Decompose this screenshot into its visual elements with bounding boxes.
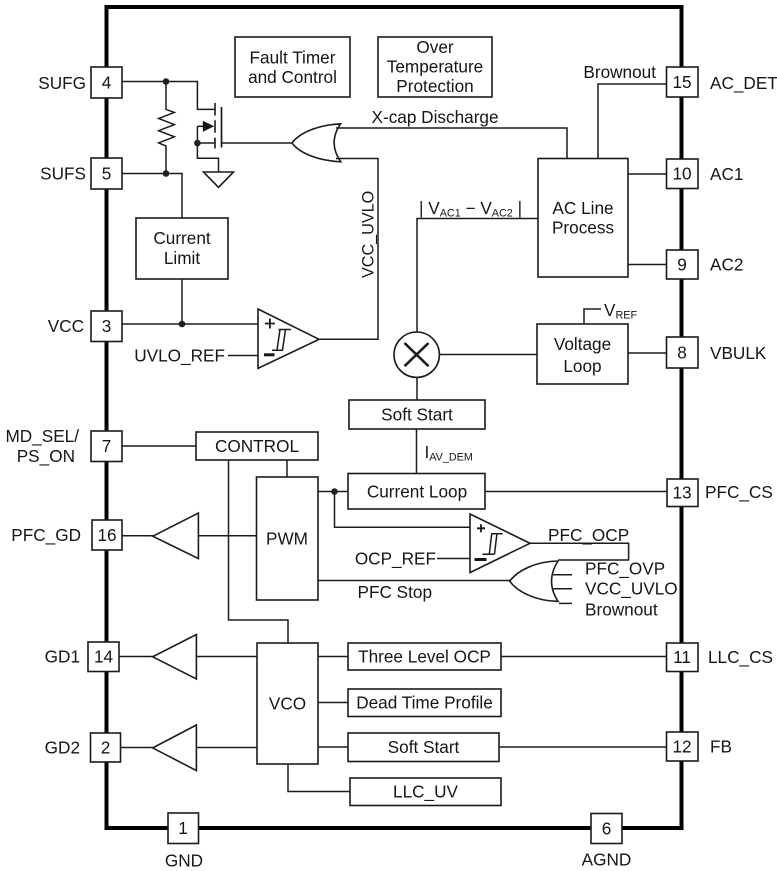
OR gate OR1 (X-cap discharge, left facing) xyxy=(292,124,341,162)
wire OR1 lower input from VCC_UVLO xyxy=(319,159,378,340)
node SUFS junction xyxy=(163,170,170,177)
svg-text:AC Line: AC Line xyxy=(552,198,613,218)
wire VREF tap xyxy=(584,309,601,324)
wire Brownout to AC_DET xyxy=(598,84,667,159)
transistor M1 channel xyxy=(214,103,216,149)
wire multiplier to Voltage Loop xyxy=(440,354,537,356)
svg-text:VCC: VCC xyxy=(48,316,84,336)
IC outer border xyxy=(107,7,682,828)
box Current Limit xyxy=(136,218,228,279)
svg-text:FB: FB xyxy=(710,737,732,757)
svg-text:AC2: AC2 xyxy=(710,255,743,275)
svg-text:Fault Timer: Fault Timer xyxy=(250,48,336,68)
svg-text:Brownout: Brownout xyxy=(583,62,656,82)
pin 13 PFC_CS xyxy=(667,479,698,507)
svg-text:UVLO_REF: UVLO_REF xyxy=(134,346,225,366)
svg-text:LLC_CS: LLC_CS xyxy=(708,647,773,667)
svg-text:AGND: AGND xyxy=(582,850,632,870)
wire X-cap Discharge xyxy=(336,128,567,159)
svg-text:and Control: and Control xyxy=(248,67,337,87)
svg-text:5: 5 xyxy=(102,164,112,184)
svg-text:2: 2 xyxy=(101,738,111,758)
wire |VAC1-VAC2| to multiplier xyxy=(417,219,538,333)
wire Current Loop to PFC_CS xyxy=(485,491,667,493)
wire OR2 input PFC_OVP xyxy=(553,574,572,576)
box Dead Time Profile xyxy=(348,689,501,717)
svg-text:SUFS: SUFS xyxy=(40,164,86,184)
wire CONTROL to PWM xyxy=(286,460,288,477)
node SUFG junction xyxy=(163,78,170,85)
pin 12 FB xyxy=(667,732,699,761)
svg-text:13: 13 xyxy=(672,483,691,503)
svg-text:VCC_UVLO: VCC_UVLO xyxy=(585,579,678,599)
wire OR2 input Brownout xyxy=(559,602,572,604)
wire AC Line Process to AC1 xyxy=(628,173,667,175)
comparator U1 (UVLO) xyxy=(258,309,319,368)
comparator U2 (PFC OCP) xyxy=(470,514,530,573)
wire MD_SEL to CONTROL xyxy=(122,445,196,447)
node Current Loop input junction xyxy=(331,488,338,495)
wire M1 gate to OR1 output xyxy=(222,142,293,144)
svg-text:Voltage: Voltage xyxy=(554,334,611,354)
svg-text:14: 14 xyxy=(94,647,114,667)
svg-text:GD1: GD1 xyxy=(45,647,80,667)
wire VCO to Dead Time Profile xyxy=(318,702,348,704)
box CONTROL xyxy=(196,432,318,460)
svg-text:SUFG: SUFG xyxy=(38,73,86,93)
svg-text:PFC_OVP: PFC_OVP xyxy=(585,559,665,579)
box Three Level OCP xyxy=(348,643,501,670)
svg-text:Protection: Protection xyxy=(396,76,473,96)
svg-text:CONTROL: CONTROL xyxy=(215,436,299,456)
wire junction to comparator U2 xyxy=(335,492,471,528)
transistor M1 source tap xyxy=(197,142,215,144)
wire PFC_OCP (U2 out to OR2) xyxy=(530,543,629,560)
box AC Line Process xyxy=(538,159,628,278)
buffer GD1 driver xyxy=(119,656,153,658)
pin 14 GD1 xyxy=(88,642,119,672)
resistor R (SUFG-SUFS) xyxy=(159,82,175,174)
svg-text:VBULK: VBULK xyxy=(710,343,767,363)
svg-text:12: 12 xyxy=(672,737,691,757)
multiplier X1 xyxy=(394,332,439,377)
transistor M1 bulk-source tie xyxy=(196,126,198,143)
wire Voltage Loop to VBULK xyxy=(628,352,667,354)
transistor M1 gate bar xyxy=(221,107,223,148)
svg-text:9: 9 xyxy=(677,255,687,275)
pin 7 MD_SEL/PS_ON xyxy=(91,431,122,462)
svg-text:VCO: VCO xyxy=(269,694,306,714)
pin 15 AC_DET xyxy=(667,67,699,97)
svg-text:AC_DET: AC_DET xyxy=(710,73,777,93)
wire VCO to Soft Start (LLC) xyxy=(318,746,348,748)
box Current Loop xyxy=(348,474,485,510)
wire OR2 input VCC_UVLO xyxy=(552,588,572,590)
svg-text:Loop: Loop xyxy=(563,356,601,376)
svg-text:6: 6 xyxy=(602,819,612,839)
wire VCC to comparator U1 xyxy=(122,323,258,325)
wire SUFS to Current Limit xyxy=(122,174,182,219)
wire CONTROL to VCO xyxy=(229,460,289,643)
svg-text:16: 16 xyxy=(97,525,116,545)
svg-text:Limit: Limit xyxy=(164,248,201,268)
svg-text:VCC_UVLO: VCC_UVLO xyxy=(360,191,378,278)
box Over Temperature Protection xyxy=(378,37,492,97)
svg-text:Dead Time Profile: Dead Time Profile xyxy=(356,693,493,713)
node M1 source junction xyxy=(194,140,201,147)
svg-text:Three Level OCP: Three Level OCP xyxy=(358,647,491,667)
wire SUFG node to MOSFET drain xyxy=(122,82,215,110)
svg-text:GND: GND xyxy=(165,851,203,871)
svg-text:3: 3 xyxy=(102,316,112,336)
svg-text:11: 11 xyxy=(673,647,691,667)
box Voltage Loop xyxy=(537,324,628,384)
svg-text:Current: Current xyxy=(153,228,211,248)
box LLC_UV xyxy=(350,778,501,806)
svg-text:10: 10 xyxy=(672,164,691,184)
pin 16 PFC_GD xyxy=(92,520,122,550)
svg-text:PS_ON: PS_ON xyxy=(17,446,75,466)
wire Soft Start to FB xyxy=(499,746,667,748)
buffer PFC_GD driver xyxy=(122,535,153,537)
svg-text:PFC_OCP: PFC_OCP xyxy=(548,525,629,545)
box Soft Start (LLC) xyxy=(348,733,499,762)
wire PWM to Current Loop xyxy=(318,491,348,493)
wire IAV_DEM xyxy=(416,429,418,474)
pin 10 AC1 xyxy=(667,159,699,189)
pin 3 VCC xyxy=(91,311,122,342)
svg-text:Soft Start: Soft Start xyxy=(388,737,460,757)
svg-text:15: 15 xyxy=(672,72,691,92)
svg-text:Temperature: Temperature xyxy=(387,57,484,77)
pin 11 LLC_CS xyxy=(667,643,699,672)
wire M1 source to ground xyxy=(197,143,218,172)
wire OCP_REF to U2 xyxy=(437,558,470,560)
pin 9 AC2 xyxy=(667,250,699,279)
svg-text:Over: Over xyxy=(416,37,454,57)
pin 4 SUFG xyxy=(91,67,122,98)
wire AC Line Process to AC2 xyxy=(628,264,667,266)
svg-text:4: 4 xyxy=(102,73,112,93)
svg-text:8: 8 xyxy=(677,343,687,363)
wire PFC Stop xyxy=(318,580,510,582)
svg-text:Process: Process xyxy=(552,218,614,238)
wire VCO to LLC_UV xyxy=(288,764,350,792)
svg-text:OCP_REF: OCP_REF xyxy=(355,549,436,569)
OR gate OR2 (PFC stop, left facing) xyxy=(510,561,558,601)
svg-text:1: 1 xyxy=(178,818,188,838)
svg-text:PFC Stop: PFC Stop xyxy=(358,582,433,602)
box VCO xyxy=(257,643,318,764)
svg-text:MD_SEL/: MD_SEL/ xyxy=(5,426,79,446)
box Soft Start (PFC) xyxy=(349,400,485,429)
svg-text:X-cap Discharge: X-cap Discharge xyxy=(372,107,499,127)
svg-text:Current Loop: Current Loop xyxy=(367,482,467,502)
svg-text:LLC_UV: LLC_UV xyxy=(393,782,459,802)
pin 5 SUFS xyxy=(91,158,122,189)
svg-text:7: 7 xyxy=(102,436,112,456)
svg-text:GD2: GD2 xyxy=(45,738,80,758)
box PWM xyxy=(257,477,319,600)
pin 2 GD2 xyxy=(91,733,121,762)
wire Current Limit to VCC node xyxy=(181,279,183,324)
buffer GD2 driver xyxy=(120,747,153,749)
pin 6 AGND xyxy=(591,814,622,844)
svg-text:Brownout: Brownout xyxy=(585,600,658,620)
node VCC junction xyxy=(179,321,186,328)
svg-text:PWM: PWM xyxy=(266,529,308,549)
wire Three Level OCP to LLC_CS xyxy=(501,656,667,658)
svg-text:PFC_GD: PFC_GD xyxy=(11,525,81,545)
ground xyxy=(204,172,234,187)
wire multiplier to Soft Start xyxy=(416,378,418,401)
svg-text:Soft Start: Soft Start xyxy=(381,405,453,425)
box Fault Timer and Control xyxy=(235,37,350,97)
transistor M1 bulk arrow xyxy=(197,125,203,127)
wire VCO to Three Level OCP xyxy=(318,656,348,658)
wire UVLO_REF to comparator U1 xyxy=(228,355,258,357)
pin 8 VBULK xyxy=(667,337,699,368)
svg-text:AC1: AC1 xyxy=(710,164,743,184)
pin 1 GND xyxy=(168,813,199,844)
svg-text:PFC_CS: PFC_CS xyxy=(705,482,773,502)
